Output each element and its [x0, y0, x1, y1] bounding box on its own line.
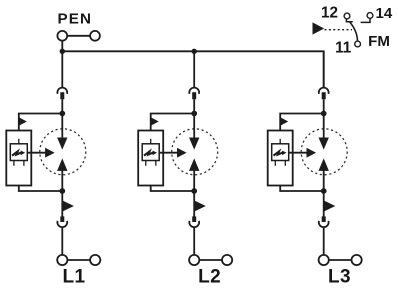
spark gap F2 dashed circle — [172, 129, 218, 175]
trigger circuit pin bottom left — [145, 161, 147, 166]
svg-text:PEN: PEN — [58, 11, 93, 28]
node junction bottom L1 — [59, 188, 65, 194]
plug-in connection top (module socket) L2 — [189, 88, 199, 94]
terminal L3 right circle — [352, 255, 362, 265]
trigger circuit pin top — [150, 139, 152, 144]
trigger circuit pin bottom left — [13, 161, 15, 166]
wire between L1 terminals — [67, 259, 90, 261]
wire contact 14 fixed — [361, 19, 370, 23]
wire between L3 terminals — [329, 259, 352, 261]
disconnector indicator flag (top) L1 — [19, 117, 27, 125]
FM actuator flag — [313, 22, 325, 34]
wire plug to terminal L2 — [193, 227, 195, 255]
wire node to disconnector flag — [61, 191, 63, 218]
wire trigger unit bottom to node — [19, 186, 63, 192]
wire L2 from bus to plug-in connection — [193, 51, 195, 88]
trigger unit U2 outer box — [138, 131, 163, 186]
terminal 11 circle — [355, 41, 361, 47]
disconnector indicator flag (bottom) L2 — [195, 201, 206, 212]
contact FM lever 11-12 — [349, 21, 357, 40]
svg-text:L2: L2 — [198, 266, 221, 286]
wire plug to terminal L3 — [323, 227, 325, 255]
wire PEN bus — [62, 51, 323, 88]
wire node to disconnector flag — [193, 191, 195, 218]
plug-in connection bottom (module socket) L3 — [322, 216, 326, 222]
trigger arrow into spark gap F1 — [27, 152, 47, 154]
wire node to trigger unit top — [151, 114, 195, 131]
terminal PEN left circle — [57, 31, 67, 41]
surge symbol inside trigger circuit — [12, 151, 22, 155]
spark gap F1 bottom electrode — [57, 158, 67, 171]
svg-text:11: 11 — [335, 40, 352, 57]
node junction top L3 — [321, 111, 327, 117]
spark gap F3 dashed circle — [301, 129, 347, 175]
trigger unit U1 outer box — [6, 131, 31, 186]
wire spark gap bottom electrode to node — [61, 169, 63, 191]
disconnector indicator flag (top) L2 — [151, 117, 159, 125]
wire trigger unit bottom to node — [151, 186, 195, 192]
trigger arrow into spark gap F3 — [289, 152, 309, 154]
wire PEN terminal to bus — [61, 41, 63, 52]
wire L3 from bus to plug-in connection — [323, 51, 325, 88]
disconnector indicator flag (top) L3 — [281, 117, 289, 125]
terminal L1 right circle — [90, 255, 100, 265]
wire L1 from bus to plug-in connection — [61, 51, 63, 88]
trigger arrow into spark gap F2 — [159, 152, 179, 154]
plug-in connection top (module socket) L3 — [319, 88, 329, 94]
spark gap F3 bottom electrode — [319, 158, 329, 171]
surge symbol inside trigger circuit — [274, 151, 284, 155]
wire plug to node — [193, 99, 195, 113]
spark gap F2 bottom electrode — [189, 158, 199, 171]
wire node to trigger unit top — [19, 114, 63, 131]
trigger circuit inner box U3 — [272, 144, 289, 161]
svg-text:L1: L1 — [63, 266, 86, 286]
wire node to disconnector flag — [323, 191, 325, 218]
svg-text:L3: L3 — [328, 266, 351, 286]
terminal L2 left circle — [189, 255, 199, 265]
node bus junction L1 — [60, 49, 65, 54]
wire trigger unit bottom to node — [280, 186, 324, 192]
wire contact 12 fixed — [346, 19, 352, 22]
wire spark gap bottom electrode to node — [323, 169, 325, 191]
wire between L2 terminals — [199, 259, 222, 261]
trigger circuit inner box U2 — [142, 144, 159, 161]
wire node to spark gap top electrode — [61, 114, 63, 140]
FM mechanical coupling dashed — [325, 29, 353, 31]
wire plug to node — [323, 99, 325, 113]
plug-in connection top (module socket) L1 — [57, 88, 67, 94]
node junction top L1 — [59, 111, 65, 117]
disconnector indicator flag (bottom) L1 — [63, 201, 74, 212]
wire spark gap bottom electrode to node — [193, 169, 195, 191]
terminal 14 circle — [367, 13, 373, 19]
svg-text:12: 12 — [321, 5, 338, 22]
terminal L1 left circle — [57, 255, 67, 265]
trigger circuit pin bottom right — [284, 161, 286, 166]
trigger circuit pin top — [18, 139, 20, 144]
wire between PEN terminals — [67, 35, 90, 37]
surge symbol inside trigger circuit — [144, 151, 154, 155]
spark gap F3 top electrode — [319, 138, 329, 150]
spark gap F1 top electrode — [57, 138, 67, 150]
plug-in connection bottom (module socket) L1 — [60, 216, 64, 222]
wire plug to node — [61, 99, 63, 113]
node junction bottom L2 — [191, 188, 197, 194]
node junction bottom L3 — [321, 188, 327, 194]
terminal L3 left circle — [319, 255, 329, 265]
plug-in connection bottom (module socket) L2 — [192, 216, 196, 222]
trigger circuit pin bottom right — [155, 161, 157, 166]
wire node to spark gap top electrode — [193, 114, 195, 140]
node junction top L2 — [191, 111, 197, 117]
terminal PEN right circle — [90, 31, 100, 41]
trigger circuit pin bottom right — [23, 161, 25, 166]
terminal L2 right circle — [222, 255, 232, 265]
wire plug to terminal L1 — [61, 227, 63, 255]
svg-text:FM: FM — [368, 33, 390, 50]
spark gap F1 dashed circle — [40, 129, 86, 175]
node bus junction L2 — [192, 49, 197, 54]
spark gap F2 top electrode — [189, 138, 199, 150]
trigger unit U3 outer box — [268, 131, 293, 186]
disconnector indicator flag (bottom) L3 — [324, 201, 335, 212]
trigger circuit pin top — [279, 139, 281, 144]
terminal 12 circle — [344, 13, 350, 19]
trigger circuit pin bottom left — [274, 161, 276, 166]
svg-text:14: 14 — [376, 5, 393, 22]
wire node to spark gap top electrode — [323, 114, 325, 140]
wire node to trigger unit top — [280, 114, 324, 131]
trigger circuit inner box U1 — [10, 144, 27, 161]
